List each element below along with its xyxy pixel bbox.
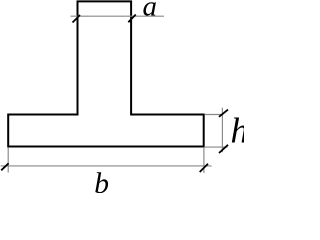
tick a left (73, 15, 81, 23)
T-section outline (8, 1, 204, 146)
tick h bottom (219, 145, 228, 153)
tick h top (219, 110, 228, 117)
dimension line b (1, 165, 212, 167)
dimension line h (221, 108, 223, 153)
svg-text:b: b (94, 168, 109, 193)
extension line b right (203, 148, 205, 173)
extension line b left (7, 148, 9, 173)
dimension line a (71, 15, 165, 17)
tick b right (200, 164, 208, 172)
tick a right (128, 15, 135, 23)
svg-text:a: a (143, 0, 158, 23)
tick b left (1, 163, 8, 170)
extension line h bottom (205, 146, 228, 148)
svg-text:h: h (231, 111, 245, 151)
extension line h top (205, 114, 224, 116)
